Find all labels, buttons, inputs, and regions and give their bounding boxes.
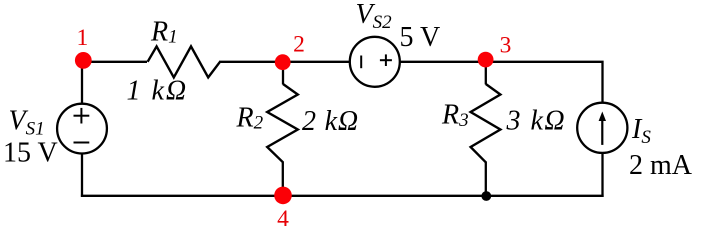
wire left: node 1 down to VS1 xyxy=(81,62,83,104)
wire: R2 down to node 4 xyxy=(282,162,284,196)
node 4 xyxy=(274,187,292,205)
svg-text:3: 3 xyxy=(500,33,512,59)
svg-text:5 V: 5 V xyxy=(400,22,441,53)
svg-text:15 V: 15 V xyxy=(3,138,58,169)
svg-text:2 kΩ: 2 kΩ xyxy=(302,106,359,137)
wire right: IS to bottom-right corner xyxy=(601,153,603,197)
wire top: node 1 to R1 xyxy=(82,61,147,63)
current source IS xyxy=(577,103,627,153)
resistor R2 xyxy=(267,84,298,162)
voltage source VS1 xyxy=(57,104,107,154)
svg-text:4: 4 xyxy=(277,206,289,232)
voltage source VS2 xyxy=(350,37,400,87)
wire top: R1 to node 2 to VS2 xyxy=(219,61,350,63)
junction dot xyxy=(481,191,491,201)
wire top: VS2 to node 3 to top-right corner xyxy=(400,62,603,103)
node 2 xyxy=(275,54,291,70)
wire bottom: left corner through node 4 and junction to right corner xyxy=(81,195,604,197)
svg-text:1: 1 xyxy=(77,25,89,51)
svg-text:2: 2 xyxy=(293,32,305,58)
resistor R3 xyxy=(471,84,501,162)
svg-text:2 mA: 2 mA xyxy=(629,150,693,181)
resistor R1 xyxy=(148,46,220,77)
svg-text:3 kΩ: 3 kΩ xyxy=(506,106,567,137)
wire left: VS1 down to bottom-left corner xyxy=(81,153,83,197)
node 3 xyxy=(478,52,494,68)
wire: node 2 down to R2 xyxy=(282,62,284,85)
wire: node 3 down to R3 xyxy=(485,62,487,85)
wire: R3 down to bottom junction xyxy=(485,162,487,196)
node 1 xyxy=(75,52,92,69)
svg-text:1 kΩ: 1 kΩ xyxy=(127,76,189,107)
